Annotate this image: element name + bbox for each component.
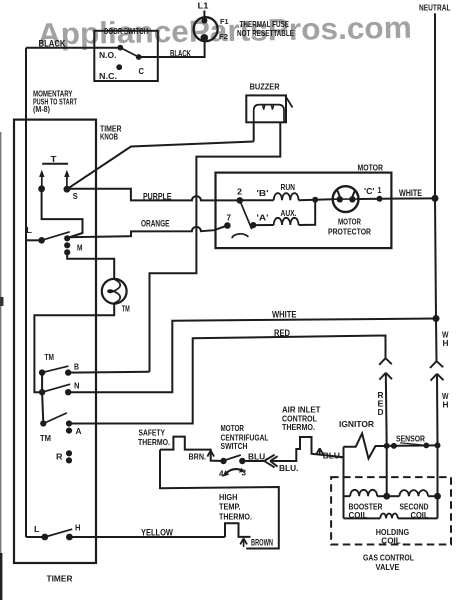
- connector arrow blu2: [316, 448, 319, 454]
- wire N contact to neutral (WHITE): [68, 319, 436, 393]
- terminal 1 / 'C': [377, 196, 383, 202]
- wire black feed: left riser to door switch N.O.: [26, 47, 120, 49]
- svg-text:R: R: [56, 451, 63, 461]
- svg-text:AUX.: AUX.: [281, 208, 297, 218]
- svg-text:2: 2: [237, 186, 242, 196]
- svg-text:1: 1: [378, 185, 382, 195]
- motor protector: [315, 198, 333, 201]
- svg-text:D: D: [378, 407, 384, 417]
- high temperature thermostat: [225, 523, 251, 537]
- sensor: [387, 444, 438, 447]
- svg-text:BRN.: BRN.: [189, 451, 207, 461]
- junction neutral / motor white: [432, 195, 439, 202]
- svg-text:4: 4: [219, 468, 224, 478]
- wire B contact to buzzer lead: [68, 371, 149, 374]
- svg-text:TIMER: TIMER: [47, 574, 73, 584]
- svg-text:BLACK: BLACK: [170, 49, 191, 60]
- svg-text:N: N: [74, 381, 80, 391]
- svg-text:PURPLE: PURPLE: [143, 191, 172, 202]
- wire neutral lower to sensor and coil: [436, 374, 439, 519]
- svg-text:'B': 'B': [257, 188, 269, 198]
- junction run/aux: [312, 197, 318, 203]
- wire neutral vertical: [435, 13, 437, 361]
- wire timer H to high temp thermostat (YELLOW): [69, 536, 225, 538]
- second coil: [387, 495, 400, 497]
- svg-text:IGNITOR: IGNITOR: [339, 419, 374, 429]
- connector arrow brn: [207, 451, 210, 457]
- svg-text:F2: F2: [219, 32, 228, 41]
- wire L1 to fuse F1: [203, 11, 205, 21]
- svg-text:L: L: [34, 524, 40, 534]
- svg-text:NEUTRAL: NEUTRAL: [419, 2, 451, 12]
- wire A contact to gas valve (RED): [69, 336, 386, 424]
- wire S to motor terminal 2 (PURPLE): [67, 189, 240, 201]
- svg-text:L1: L1: [198, 1, 209, 11]
- svg-text:YELLOW: YELLOW: [141, 528, 173, 539]
- wire motor to neutral (WHITE): [391, 197, 435, 199]
- svg-text:TM: TM: [40, 433, 51, 443]
- motor box: [216, 173, 392, 249]
- wire M to motor terminal 7 (ORANGE): [67, 226, 227, 238]
- connector neutral (quick disconnect): [430, 361, 437, 368]
- svg-text:PROTECTOR: PROTECTOR: [328, 226, 371, 236]
- timer contact column B-N-A: [42, 373, 43, 424]
- svg-text:BROWN: BROWN: [251, 538, 273, 548]
- svg-text:(M-8): (M-8): [33, 104, 50, 114]
- svg-text:THERMO.: THERMO.: [138, 437, 170, 447]
- wire black riser down left side to timer L-H switch: [25, 48, 27, 537]
- junction neutral / timer-N white: [433, 315, 440, 322]
- svg-text:H: H: [75, 522, 81, 532]
- junction sensor / neutral: [435, 442, 441, 448]
- rotation arc indicator: [227, 469, 242, 473]
- svg-text:THERMO.: THERMO.: [282, 422, 315, 432]
- wire connector to air inlet thermostat: [271, 437, 344, 461]
- svg-text:F1: F1: [220, 17, 229, 26]
- svg-text:BLU.: BLU.: [279, 463, 299, 473]
- svg-text:S: S: [73, 191, 78, 201]
- svg-text:RED: RED: [274, 328, 290, 339]
- svg-text:M: M: [77, 242, 83, 252]
- svg-text:T: T: [51, 154, 58, 164]
- svg-text:KNOB: KNOB: [100, 131, 118, 141]
- motor start switch blade 2-A: [240, 200, 252, 229]
- svg-text:SWITCH: SWITCH: [221, 441, 248, 451]
- holding coil: [344, 517, 381, 519]
- wire TM to white column / N contact: [34, 303, 114, 392]
- svg-text:MOTOR: MOTOR: [338, 216, 361, 226]
- door switch box: [94, 31, 158, 81]
- junction neutral / second coil: [434, 493, 441, 500]
- wire 3 to connector (BLU): [242, 460, 264, 462]
- terminal S: [64, 186, 71, 193]
- thermal fuse F1-F2: [194, 17, 218, 41]
- timer box: [14, 120, 96, 563]
- door switch contact N.O.: [117, 45, 123, 51]
- door switch blade N.O.-C: [120, 48, 138, 57]
- wire M to timer motor TM: [67, 252, 114, 279]
- svg-text:GAS CONTROL: GAS CONTROL: [363, 552, 414, 562]
- timer switch L-H: [26, 536, 45, 538]
- svg-text:BLU.: BLU.: [323, 450, 343, 460]
- svg-text:SENSOR: SENSOR: [396, 434, 425, 444]
- svg-text:TM: TM: [122, 303, 130, 313]
- svg-text:NOT RESETTABLE: NOT RESETTABLE: [237, 28, 294, 38]
- svg-text:HIGH: HIGH: [219, 492, 238, 502]
- terminal dot push-to-start left: [38, 185, 45, 192]
- svg-text:RUN: RUN: [281, 182, 296, 192]
- svg-text:COIL: COIL: [381, 536, 401, 546]
- booster coil: [344, 495, 351, 497]
- timer motor TM: [102, 279, 127, 304]
- svg-text:N.C.: N.C.: [99, 71, 117, 81]
- svg-text:C: C: [139, 66, 145, 76]
- svg-text:H: H: [443, 338, 449, 348]
- svg-text:TEMP.: TEMP.: [219, 502, 241, 512]
- svg-text:N.O.: N.O.: [99, 50, 117, 60]
- wire push-to-start to M contact: [42, 189, 83, 238]
- safety thermostat: [160, 437, 224, 461]
- gas control valve (dashed box): [331, 477, 451, 544]
- door switch contact C: [136, 54, 142, 60]
- centrifugal actuator arc: [232, 234, 248, 238]
- wire buzzer right lead to timer B contact: [150, 122, 281, 372]
- svg-text:THERMO.: THERMO.: [219, 511, 252, 521]
- terminal M (3 contacts): [64, 235, 70, 241]
- wire buzzer left lead: [253, 122, 255, 142]
- connector blu (quick disconnect chevrons): [264, 455, 274, 461]
- svg-text:A: A: [76, 426, 82, 436]
- svg-text:H: H: [443, 400, 449, 410]
- watermark AppliancePartsPros.com: [38, 11, 413, 52]
- svg-text:TM: TM: [45, 352, 55, 362]
- wire S to buzzer (timer knob pointer): [67, 142, 254, 190]
- svg-text:BLACK: BLACK: [39, 38, 66, 49]
- svg-text:WHITE: WHITE: [399, 188, 422, 199]
- wire gas valve left feed: [343, 447, 345, 519]
- svg-text:MOTOR: MOTOR: [358, 162, 384, 172]
- svg-text:'C': 'C': [364, 186, 375, 196]
- svg-text:SAFETY: SAFETY: [139, 427, 166, 437]
- svg-text:7: 7: [227, 212, 232, 222]
- svg-text:DOOR SWITCH: DOOR SWITCH: [104, 26, 148, 36]
- svg-text:BUZZER: BUZZER: [250, 82, 280, 92]
- door switch contact N.C.: [116, 64, 122, 70]
- svg-text:WHITE: WHITE: [272, 310, 297, 321]
- wire protector to terminal 1: [359, 198, 392, 200]
- wire brown to safety thermostat: [160, 450, 279, 549]
- svg-text:ORANGE: ORANGE: [141, 218, 170, 229]
- connector arrow brown: [240, 538, 243, 544]
- contact 'A': [250, 222, 256, 228]
- junction red / booster-second: [383, 493, 390, 500]
- timer switch N: [39, 389, 45, 395]
- wire red lower to ignitor junction: [385, 373, 388, 496]
- wire fuse F2 to door switch C (BLACK): [139, 38, 205, 57]
- junction red / ignitor: [384, 443, 390, 449]
- connector red (quick disconnect): [379, 358, 385, 365]
- svg-text:B: B: [74, 362, 79, 372]
- svg-text:L: L: [26, 225, 32, 235]
- svg-text:'A': 'A': [257, 212, 269, 222]
- svg-text:VALVE: VALVE: [376, 562, 400, 572]
